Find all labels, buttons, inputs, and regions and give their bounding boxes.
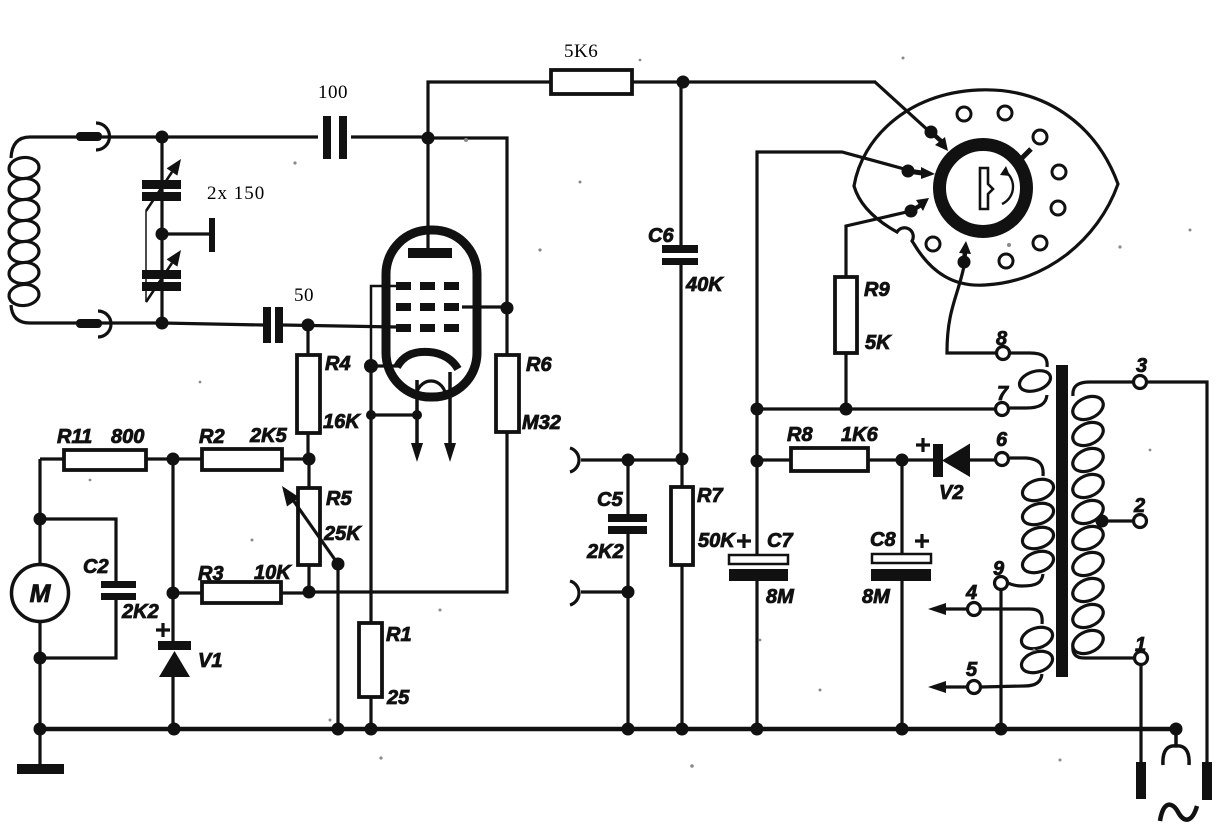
connector hook C5 top xyxy=(570,448,579,472)
tube grid 3 xyxy=(396,324,462,332)
svg-text:3: 3 xyxy=(1136,355,1147,377)
wire hook to C5 bottom junction xyxy=(581,590,628,593)
svg-text:R5: R5 xyxy=(326,488,352,510)
resistor 5K6 xyxy=(551,70,632,94)
terminal 8 xyxy=(997,347,1010,360)
svg-text:100: 100 xyxy=(318,82,348,103)
wire plate junction to screen column xyxy=(428,138,507,355)
node V1/R3 xyxy=(167,587,180,600)
wire socket contact3 to R9 xyxy=(846,211,911,277)
wire hook to C5 junction xyxy=(581,458,628,461)
socket contact 3 xyxy=(905,205,918,218)
svg-text:C5: C5 xyxy=(597,489,623,511)
ground rail xyxy=(40,727,1176,732)
node grid input / R4 xyxy=(302,319,315,332)
svg-text:4: 4 xyxy=(965,582,977,604)
connector hook C5 bottom xyxy=(570,581,579,605)
wire R11 to R2 xyxy=(146,457,202,460)
node rail R7 xyxy=(676,723,689,736)
svg-text:8M: 8M xyxy=(862,586,891,608)
svg-text:800: 800 xyxy=(111,426,144,448)
svg-text:V2: V2 xyxy=(939,482,963,504)
svg-text:M32: M32 xyxy=(522,412,561,434)
capacitor C5 column xyxy=(626,460,629,592)
wire top coil to cap 100 xyxy=(30,135,318,138)
capacitor C5 xyxy=(608,514,647,534)
terminal 5 xyxy=(968,681,981,694)
diode V2 xyxy=(916,438,970,477)
node M bottom xyxy=(34,652,47,665)
resistor R11 xyxy=(64,450,146,470)
node B+ top xyxy=(751,403,764,416)
svg-text:40K: 40K xyxy=(685,274,724,296)
node R5 wiper xyxy=(332,558,345,571)
tube socket body xyxy=(854,90,1118,285)
svg-text:C8: C8 xyxy=(870,529,896,551)
ground xyxy=(17,729,64,774)
wire V1 column xyxy=(171,459,174,641)
node cathode xyxy=(364,359,378,373)
wire R3 to junction xyxy=(281,591,310,594)
resistor R2 xyxy=(202,449,282,470)
node C5 top xyxy=(622,454,635,467)
wire C2 top branch xyxy=(40,519,116,581)
svg-text:R6: R6 xyxy=(526,354,552,376)
tube grid 2 xyxy=(396,303,462,311)
node coil bottom xyxy=(156,317,169,330)
wire cathode column to R1 xyxy=(369,366,372,623)
node rail end xyxy=(1170,723,1183,736)
wire grid2 to screen column xyxy=(462,305,507,308)
node R8 left xyxy=(751,455,764,468)
svg-text:2K5: 2K5 xyxy=(249,425,288,447)
connector hook rail end xyxy=(1163,729,1189,765)
node C6/R7 xyxy=(676,453,689,466)
winding 6-9 xyxy=(1008,458,1056,586)
wire R5 wiper to rail xyxy=(336,564,339,729)
connector plug bottom-left xyxy=(76,311,111,337)
wire cathode lead xyxy=(372,364,398,367)
wire C5 bottom to rail xyxy=(626,592,629,729)
wire B+ column to C7 and rail xyxy=(755,409,758,729)
svg-text:R8: R8 xyxy=(787,424,813,446)
mains plug pin right xyxy=(1202,762,1212,800)
chassis tie bar xyxy=(209,218,215,252)
diode V1 xyxy=(156,623,191,677)
wire 5K6 to C6 junction xyxy=(632,80,681,83)
wire R2 to R4 junction xyxy=(282,457,309,460)
wire bias line R11-R2 xyxy=(40,457,64,460)
tube anode plate xyxy=(408,248,452,258)
capacitor C2 xyxy=(101,581,136,600)
node transformer tap 2 xyxy=(1096,515,1109,528)
node R9 bottom xyxy=(840,403,853,416)
node tuning rotor xyxy=(156,228,169,241)
AC symbol xyxy=(1160,805,1197,821)
node M top xyxy=(34,513,47,526)
node R8/V2/C8 xyxy=(896,454,909,467)
wire C6 column xyxy=(679,82,682,459)
wire cap100 to plate junction xyxy=(351,135,428,138)
svg-text:C7: C7 xyxy=(767,530,793,552)
svg-text:2K2: 2K2 xyxy=(121,601,159,623)
transformer core xyxy=(1056,365,1068,677)
svg-text:5K6: 5K6 xyxy=(564,41,598,62)
gang line xyxy=(145,211,147,302)
node rail M xyxy=(34,723,47,736)
node plate junction xyxy=(422,132,435,145)
node rail C5 xyxy=(622,723,635,736)
node R11/R2/V1 xyxy=(167,453,180,466)
capacitor C6 xyxy=(662,245,698,265)
capacitor C8 xyxy=(871,534,931,581)
node rail C8 xyxy=(896,723,909,736)
resistor R9 xyxy=(835,277,857,409)
inductor L antenna coil xyxy=(8,137,40,323)
svg-text:R2: R2 xyxy=(199,426,225,448)
variable capacitor Cb 150 bottom xyxy=(142,250,181,302)
svg-text:1: 1 xyxy=(1135,634,1146,656)
terminal 3 xyxy=(1134,376,1147,389)
svg-text:R3: R3 xyxy=(198,563,224,585)
wire grid1 tie xyxy=(371,286,396,366)
wire V2 to terminal 6 xyxy=(969,458,995,461)
node 5K6 / C6 xyxy=(677,76,690,89)
svg-text:5: 5 xyxy=(966,659,978,681)
arrow terminal 5 xyxy=(928,681,967,693)
wire cap50 to grid xyxy=(283,325,397,327)
capacitor 50 xyxy=(263,307,283,343)
terminal 9 xyxy=(995,577,1008,590)
socket ring tick xyxy=(1019,149,1031,161)
node coil top / tuning xyxy=(156,131,169,144)
svg-text:C6: C6 xyxy=(648,225,674,247)
tube cathode xyxy=(397,352,458,369)
wire R6 bottom to R3 line xyxy=(310,432,507,592)
capacitor C7 xyxy=(729,534,788,581)
capacitor 100 xyxy=(323,116,347,159)
node heater tap left xyxy=(366,410,376,420)
svg-text:8M: 8M xyxy=(766,586,795,608)
socket pin holes xyxy=(926,106,1066,268)
svg-text:M: M xyxy=(30,580,52,608)
resistor R1 xyxy=(359,623,382,729)
wire bend to socket contact 1 xyxy=(875,82,931,133)
svg-text:2: 2 xyxy=(1133,495,1145,517)
tube envelope bump xyxy=(416,381,446,398)
tube grid 1 xyxy=(396,282,462,290)
winding 8-7 xyxy=(1010,353,1053,408)
wire terminal 9 to rail xyxy=(999,590,1002,729)
wire B+ line to terminal 7 xyxy=(757,407,995,410)
wire rotor tap xyxy=(162,232,210,235)
socket contact bottom xyxy=(958,256,971,269)
wire tuning column xyxy=(160,137,163,323)
wire plate lead xyxy=(426,138,429,250)
mains plug pin left xyxy=(1136,762,1146,799)
tube socket U xyxy=(902,106,1067,269)
node rail C7 xyxy=(751,723,764,736)
svg-text:9: 9 xyxy=(993,558,1005,580)
tube heater lead left xyxy=(415,380,419,445)
svg-text:8: 8 xyxy=(996,328,1008,350)
svg-text:7: 7 xyxy=(997,383,1009,405)
wire C6 junction to socket bend xyxy=(681,80,876,83)
socket contact 1 xyxy=(925,126,938,139)
svg-text:R9: R9 xyxy=(864,279,890,301)
wire C8 column xyxy=(900,460,903,729)
tube heater lead right xyxy=(448,372,452,445)
node heater tap right xyxy=(412,410,422,420)
connector plug top-left xyxy=(76,123,109,150)
terminal 7 xyxy=(996,403,1009,416)
svg-text:50K: 50K xyxy=(698,530,736,552)
resistor R8 xyxy=(791,448,868,471)
wire R3 line xyxy=(173,591,202,594)
arrow terminal 4 xyxy=(928,603,967,615)
node R2/R4/R5 xyxy=(303,453,316,466)
svg-text:25K: 25K xyxy=(323,523,362,545)
node screen grid xyxy=(501,302,514,315)
svg-text:2K2: 2K2 xyxy=(586,541,624,563)
node C5 bottom xyxy=(622,586,635,599)
wire socket contact2 down column xyxy=(757,152,908,409)
terminal 6 xyxy=(996,453,1009,466)
wire C2 bottom branch xyxy=(40,600,116,658)
wire C5 junction to R7 junction xyxy=(628,458,682,461)
resistor R6 xyxy=(496,355,519,432)
wire left column M xyxy=(38,459,41,565)
tube V triode-pentode xyxy=(371,230,507,623)
terminal 4 xyxy=(968,603,981,616)
wire plate junction up to 5K6 xyxy=(428,82,551,138)
resistor R7 xyxy=(671,459,693,729)
scan speckles xyxy=(89,57,1192,768)
wire terminal 3 to mains xyxy=(1147,382,1207,764)
tube envelope xyxy=(386,230,477,397)
transformer T xyxy=(968,347,1148,694)
svg-text:R11: R11 xyxy=(57,426,92,448)
svg-text:25: 25 xyxy=(386,687,410,709)
resistor R5 variable xyxy=(282,459,338,592)
svg-text:1K6: 1K6 xyxy=(841,424,879,446)
socket ring xyxy=(940,145,1027,232)
node R3/R5 xyxy=(303,586,316,599)
socket contact 2 xyxy=(902,165,915,178)
svg-text:R7: R7 xyxy=(697,485,723,507)
resistor R4 xyxy=(297,326,320,459)
wire terminal 1 to mains xyxy=(1139,665,1142,764)
wire center tap xyxy=(1102,519,1133,522)
socket key xyxy=(980,166,1013,209)
svg-text:R1: R1 xyxy=(386,624,412,646)
svg-text:2x 150: 2x 150 xyxy=(207,183,265,204)
wire R8 feed xyxy=(757,458,791,461)
winding 4-5 xyxy=(981,609,1055,687)
wire socket bottom to terminal 8 xyxy=(947,266,996,353)
wire R8 to V2 xyxy=(868,458,934,461)
node rail R1 xyxy=(365,723,378,736)
svg-text:V1: V1 xyxy=(198,650,222,672)
svg-text:10K: 10K xyxy=(254,562,292,584)
svg-text:5K: 5K xyxy=(865,332,892,354)
node rail terminal 9 xyxy=(995,723,1008,736)
svg-text:16K: 16K xyxy=(323,411,361,433)
svg-text:50: 50 xyxy=(294,285,314,306)
motor M xyxy=(12,565,69,622)
node rail V1 xyxy=(168,723,181,736)
terminal 2 xyxy=(1134,515,1147,528)
node rail R5 wiper xyxy=(332,723,345,736)
svg-text:6: 6 xyxy=(996,429,1008,451)
wire bottom coil to cap 50 xyxy=(30,323,263,325)
svg-text:R4: R4 xyxy=(325,353,351,375)
wire heater tap xyxy=(371,413,417,416)
resistor R3 xyxy=(202,582,281,603)
terminal 1 xyxy=(1135,652,1148,665)
svg-text:C2: C2 xyxy=(83,556,109,578)
variable capacitor Ca 150 top xyxy=(142,159,181,211)
winding secondary 3-2-1 xyxy=(1069,382,1134,658)
